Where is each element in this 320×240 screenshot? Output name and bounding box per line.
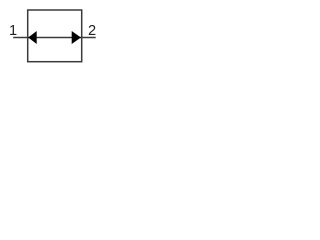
svg-text:1: 1: [9, 23, 17, 39]
diac right triangle (cathode toward pin 2): [72, 31, 81, 44]
wire pin1 to pin2 through-line: [13, 37, 96, 39]
diac left triangle (cathode toward pin 1): [28, 31, 37, 44]
svg-text:2: 2: [88, 23, 96, 39]
diac D1 body outline: [28, 10, 82, 62]
